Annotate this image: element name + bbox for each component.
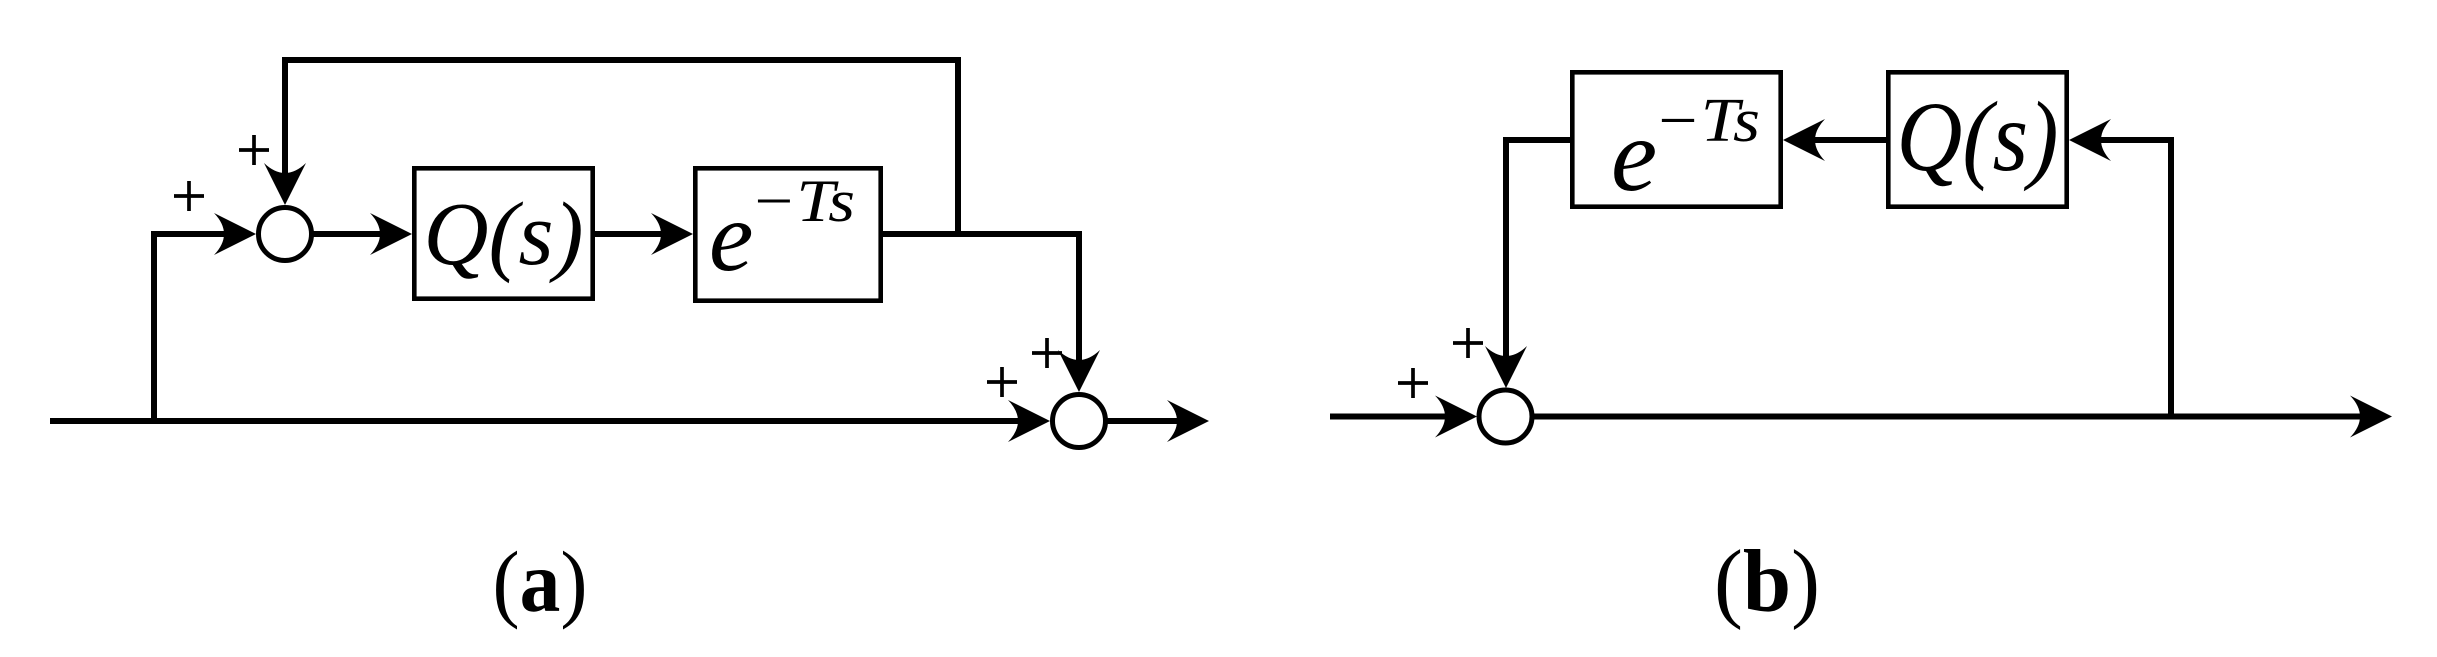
svg-text:(a): (a) (493, 533, 588, 630)
svg-text:Q(s): Q(s) (1897, 81, 2059, 192)
wire: branch vertical from main line up to summer S1 input (a) (154, 234, 230, 424)
arrowhead into S1 left (214, 213, 256, 255)
block e^-Ts (b) (1572, 72, 1780, 206)
node: summing junction S3 (b) (1479, 390, 1532, 443)
wire: S1 to block Q(s) (a) (311, 231, 386, 237)
svg-text:e: e (1611, 98, 1657, 213)
block Q(s) (a) (414, 168, 592, 298)
wire: branch from output line up to Q(s) input (b) (2096, 140, 2171, 419)
wire: e^-Ts output to down-drop into S2 (a) (883, 234, 1079, 366)
svg-text:−Ts: −Ts (750, 168, 855, 234)
arrowhead into S3 left (1435, 396, 1477, 438)
wire: main input line (a) (50, 418, 1025, 424)
wire: input line (b) (1330, 414, 1452, 420)
block e^-Ts (a) (695, 168, 880, 300)
arrowhead output (a) (1167, 400, 1209, 442)
arrowhead output (b) (2350, 396, 2392, 438)
arrowhead left into Q(s) (b) (2069, 119, 2111, 161)
plus sign at S3 left input (1398, 368, 1428, 398)
wire: S3 output line (b) (1531, 414, 2366, 420)
caption (b) (1714, 533, 1820, 631)
plus sign at S1 top input (239, 135, 269, 165)
wire: Q(s) to e^-Ts (b) (1812, 137, 1886, 143)
node: summing junction S1 (a) (259, 208, 312, 261)
block Q(s) (b) (1888, 72, 2066, 206)
arrowhead down into S3 top (1485, 346, 1527, 388)
label Q(s) (b) (1897, 81, 2059, 192)
plus sign at S3 top input (1453, 328, 1483, 358)
label e^-Ts (b) (1611, 87, 1760, 213)
arrowhead down into S2 top (1058, 350, 1100, 392)
svg-text:e: e (709, 181, 753, 292)
wire: S2 output (a) (1106, 418, 1184, 424)
arrowhead into Q(s) (a) (370, 213, 412, 255)
plus sign at S2 left input (987, 367, 1017, 397)
wire: e^-Ts output down to summer S3 (b) (1506, 140, 1570, 362)
arrowhead down into S1 top (264, 163, 306, 205)
arrowhead left into e^-Ts (b) (1783, 119, 1825, 161)
arrowhead into S2 left (1008, 400, 1050, 442)
svg-text:Q(s): Q(s) (424, 185, 584, 284)
node: summing junction S2 (a) (1053, 395, 1106, 448)
label Q(s) (a) (424, 185, 584, 284)
svg-text:−Ts: −Ts (1654, 87, 1760, 155)
wire: feedback from output node up and across to S1 top (a) (285, 60, 958, 237)
plus sign at S2 top input (1032, 338, 1062, 368)
plus sign at S1 left input (174, 181, 204, 211)
svg-text:(b): (b) (1714, 533, 1820, 631)
arrowhead into e^-Ts (a) (651, 213, 693, 255)
label e^-Ts (a) (709, 168, 855, 292)
wire: Q(s) to e^-Ts (a) (595, 231, 667, 237)
caption (a) (493, 533, 588, 630)
